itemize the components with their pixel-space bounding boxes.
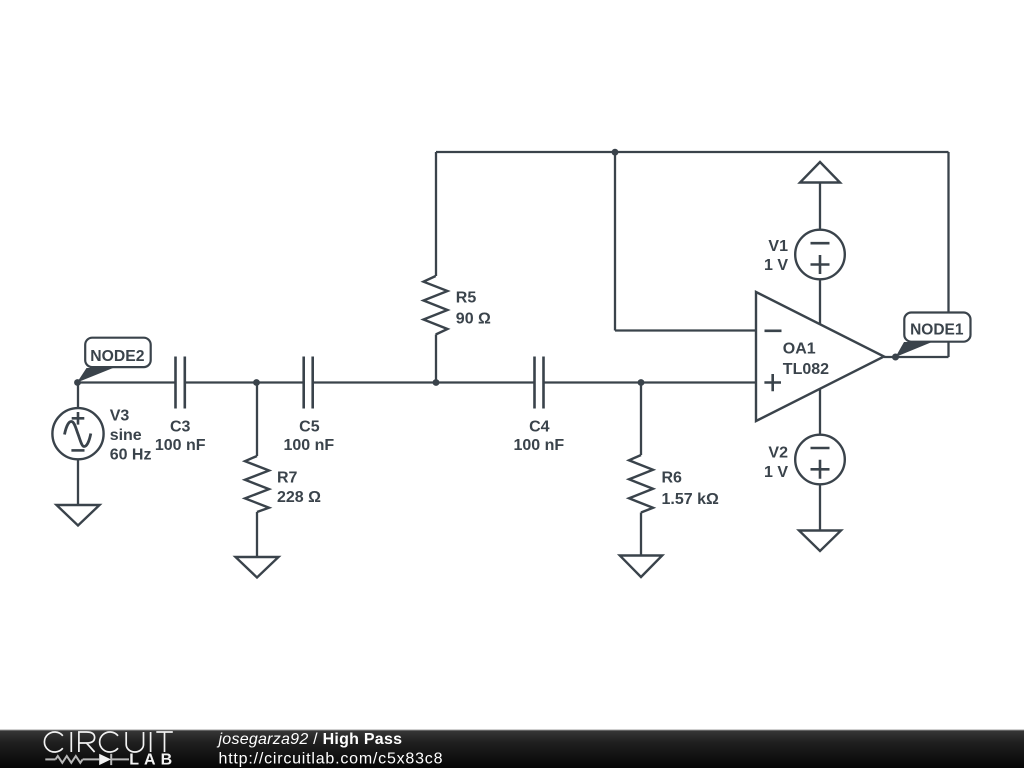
svg-text:sine: sine [110,427,142,444]
svg-text:josegarza92 / High Pass: josegarza92 / High Pass [217,731,403,748]
svg-text:1 V: 1 V [764,257,788,274]
svg-text:1.57 kΩ: 1.57 kΩ [662,491,719,508]
svg-text:C4: C4 [529,418,550,435]
svg-text:C3: C3 [170,418,191,435]
svg-text:V1: V1 [768,238,788,255]
svg-text:NODE1: NODE1 [910,322,964,339]
svg-text:90 Ω: 90 Ω [456,311,491,328]
svg-text:228 Ω: 228 Ω [277,489,321,506]
svg-text:100 nF: 100 nF [513,437,564,454]
svg-text:100 nF: 100 nF [283,437,334,454]
svg-text:V3: V3 [110,407,130,424]
svg-text:LAB: LAB [129,752,172,768]
svg-text:100 nF: 100 nF [155,437,206,454]
svg-text:60 Hz: 60 Hz [110,447,152,464]
svg-text:1 V: 1 V [764,464,788,481]
svg-text:NODE2: NODE2 [90,348,144,365]
svg-text:OA1: OA1 [783,340,816,357]
svg-text:R7: R7 [277,469,298,486]
svg-text:R5: R5 [456,289,477,306]
svg-text:V2: V2 [768,445,788,462]
svg-text:TL082: TL082 [783,361,829,378]
svg-text:C5: C5 [299,418,320,435]
svg-text:http://circuitlab.com/c5x83c8: http://circuitlab.com/c5x83c8 [219,751,443,768]
svg-text:R6: R6 [662,470,683,487]
